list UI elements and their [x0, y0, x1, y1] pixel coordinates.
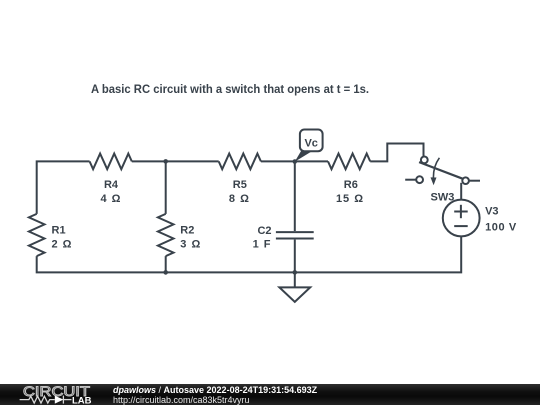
plus sign: [454, 211, 468, 213]
capacitor C2: [276, 232, 314, 238]
svg-text:4 Ω: 4 Ω: [101, 193, 122, 205]
svg-text:R4: R4: [104, 179, 119, 191]
common contact circle: [462, 177, 469, 184]
svg-text:15 Ω: 15 Ω: [336, 193, 364, 205]
wire switch to V3: [460, 183, 462, 200]
resistor R6: [328, 154, 370, 170]
wire R2 bottom lead: [165, 256, 167, 272]
svg-text:2 Ω: 2 Ω: [52, 239, 73, 251]
svg-text:C2: C2: [257, 225, 271, 237]
wire R5 to R6: [261, 160, 328, 162]
svg-text:1 F: 1 F: [253, 239, 272, 251]
resistor R5: [219, 154, 261, 170]
wire bottom rail: [37, 237, 462, 273]
wire top-left corner: [37, 161, 90, 214]
node junction R2 top: [163, 159, 168, 164]
footer bar: [0, 384, 540, 405]
wire capacitor to bottom rail: [294, 240, 296, 273]
svg-text:LAB: LAB: [72, 395, 92, 405]
node junction R2 bottom: [163, 270, 168, 275]
actuation arrow: [433, 158, 439, 178]
minus sign: [454, 225, 468, 227]
blade: [419, 162, 463, 179]
wire R6 to switch (up jog): [370, 144, 423, 162]
pin 1 contact circle: [421, 157, 428, 164]
wire node Vc to capacitor: [294, 162, 296, 232]
svg-text:3 Ω: 3 Ω: [180, 239, 201, 251]
common lead right: [469, 180, 480, 182]
node Vc junction: [293, 159, 298, 164]
svg-text:100 V: 100 V: [485, 221, 517, 233]
footer text line 2: [113, 395, 250, 405]
svg-text:R1: R1: [52, 224, 66, 236]
wire R4 to R5: [132, 160, 219, 162]
svg-text:R6: R6: [344, 179, 358, 191]
svg-text:A basic RC circuit with a swit: A basic RC circuit with a switch that op…: [91, 84, 369, 96]
svg-text:Vc: Vc: [304, 137, 317, 149]
svg-text:8 Ω: 8 Ω: [229, 193, 250, 205]
probe flag Vc: [295, 130, 323, 162]
voltage source V3: [443, 200, 480, 237]
footer text line 1: [113, 385, 317, 395]
resistor R4: [90, 154, 132, 170]
open throw contact circle: [416, 176, 423, 183]
CircuitLab logo: [0, 384, 110, 405]
resistor R1: [29, 214, 45, 256]
resistor R2: [158, 214, 174, 256]
svg-text:R2: R2: [180, 224, 194, 236]
svg-text:R5: R5: [233, 179, 247, 191]
svg-text:V3: V3: [485, 206, 498, 218]
ground: [279, 272, 310, 302]
open throw contact lead: [405, 179, 416, 181]
wire R2 top lead: [165, 161, 167, 214]
switch SW3: [405, 157, 480, 186]
node junction ground: [293, 270, 298, 275]
